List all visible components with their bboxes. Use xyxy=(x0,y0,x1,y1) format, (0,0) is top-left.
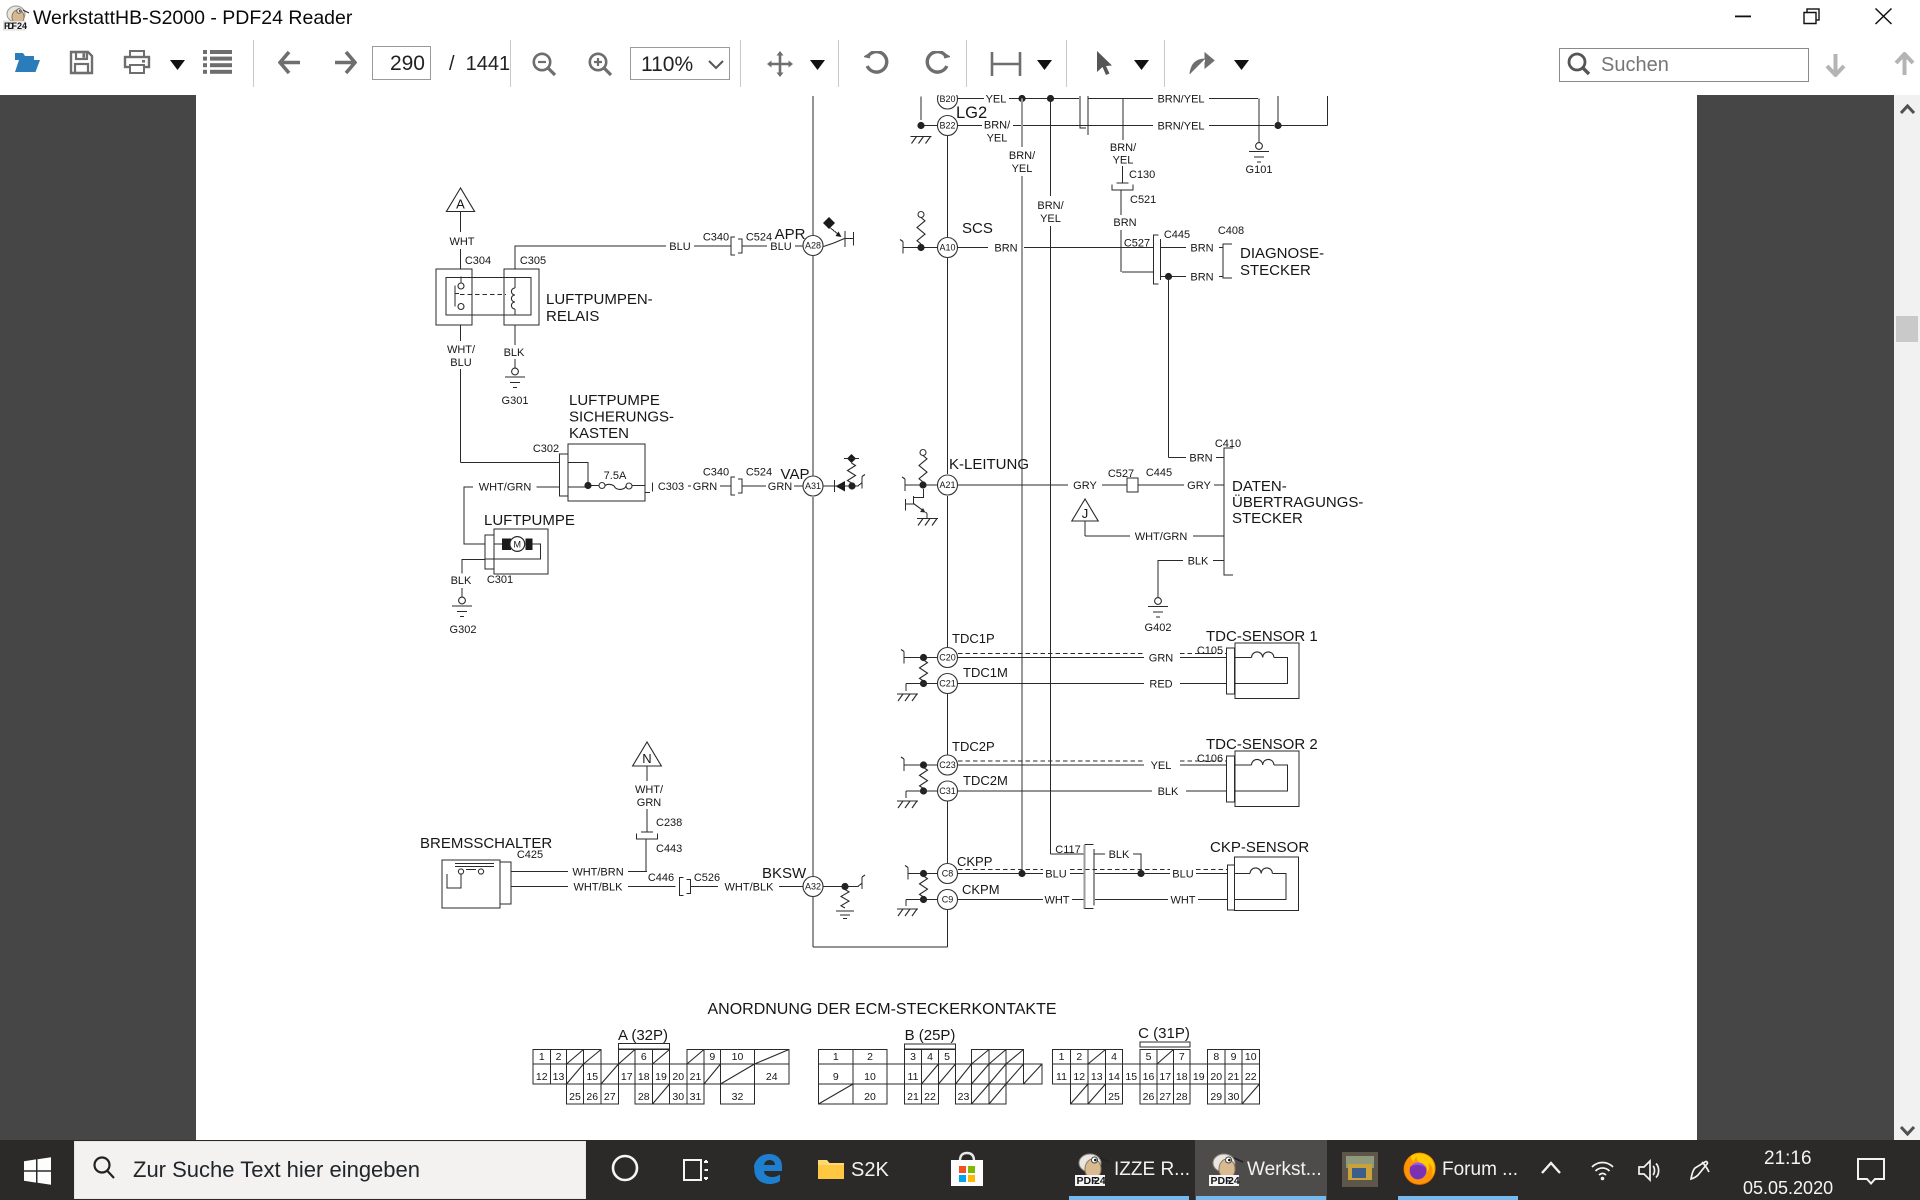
wire C524 to GRN2 vap xyxy=(743,485,767,487)
svg-text:2: 2 xyxy=(556,1051,562,1063)
wire C526 to WHT/BLK xyxy=(691,886,719,888)
svg-text:WHT/: WHT/ xyxy=(447,344,476,356)
svg-text:GRY: GRY xyxy=(1073,480,1097,492)
svg-text:BRN: BRN xyxy=(1190,243,1213,255)
svg-text:B20: B20 xyxy=(939,95,955,104)
wire BLK corner to BLU xyxy=(1133,854,1141,874)
svg-text:YEL: YEL xyxy=(1113,155,1134,167)
svg-text:BRN/YEL: BRN/YEL xyxy=(1157,95,1204,106)
cortana circle xyxy=(610,1153,640,1183)
wire WHT/BLU into C302 xyxy=(461,462,560,464)
wire BLU2 to A28 xyxy=(795,245,803,247)
taskbar search box xyxy=(74,1141,586,1199)
svg-text:23: 23 xyxy=(958,1091,970,1103)
wire BRN2 into C408 xyxy=(1219,276,1223,278)
wire BLU cont xyxy=(1141,873,1170,875)
svg-text:25: 25 xyxy=(569,1091,581,1103)
measure tool xyxy=(990,50,1022,78)
switch symbol A28 xyxy=(823,217,835,229)
wire from diagnose dot down xyxy=(1168,277,1170,458)
wire top stub above B22 junction xyxy=(920,97,922,121)
ECM line A31 to A32 xyxy=(812,497,814,876)
svg-text:29: 29 xyxy=(1210,1091,1222,1103)
svg-text:31: 31 xyxy=(690,1091,702,1103)
svg-text:BLU: BLU xyxy=(669,241,690,253)
svg-text:BLU: BLU xyxy=(1172,869,1193,881)
share arrow xyxy=(1188,51,1215,76)
wire A10 BRN right xyxy=(958,247,988,249)
node dot bus A to BLU xyxy=(1018,870,1025,877)
svg-text:G101: G101 xyxy=(1246,164,1273,176)
svg-text:BLU: BLU xyxy=(1045,869,1066,881)
svg-text:WHT/BRN: WHT/BRN xyxy=(572,867,623,879)
relay inner box xyxy=(446,278,531,316)
wire GRN solid xyxy=(958,657,1145,659)
photo icon xyxy=(1342,1152,1378,1187)
grid C row3 xyxy=(1071,1084,1089,1104)
node junction dot left of B22 xyxy=(917,122,924,129)
svg-text:BLK: BLK xyxy=(1109,849,1130,861)
ground hatch TDC2 xyxy=(898,801,917,808)
svg-text:C106: C106 xyxy=(1197,753,1223,765)
resistor pullup SCS xyxy=(918,212,924,218)
svg-text:C20: C20 xyxy=(939,653,956,663)
node dot bus A top xyxy=(1018,95,1025,102)
wire BLU into ckp bar xyxy=(1196,873,1228,875)
wire WHT after C117 xyxy=(1095,899,1168,901)
svg-text:C105: C105 xyxy=(1197,645,1223,657)
svg-text:20: 20 xyxy=(672,1071,684,1083)
svg-text:C23: C23 xyxy=(939,760,956,770)
wire C305 up corner BLU xyxy=(515,246,666,269)
wire C130 to C527 corner xyxy=(1120,190,1122,215)
svg-text:GRY: GRY xyxy=(1187,480,1211,492)
save floppy xyxy=(69,50,94,75)
wire corner up at right end xyxy=(1327,96,1329,126)
wire BLK from C305 xyxy=(514,325,516,345)
wire BLK to G302 xyxy=(461,588,463,597)
svg-text:2: 2 xyxy=(867,1051,873,1063)
diamond top A31 xyxy=(847,454,856,463)
ECM pin A28 xyxy=(803,236,823,256)
grid B row2 xyxy=(819,1064,854,1084)
wire BLU solid ckp xyxy=(958,873,1044,875)
svg-text:C340: C340 xyxy=(703,232,729,244)
ECM pin A32 xyxy=(803,877,823,897)
ECM line top to A28 xyxy=(812,96,814,235)
svg-text:4: 4 xyxy=(927,1051,933,1063)
wire bracket to C23 xyxy=(904,764,938,766)
svg-text:26: 26 xyxy=(586,1091,598,1103)
svg-text:17: 17 xyxy=(1159,1071,1171,1083)
svg-text:C117: C117 xyxy=(1055,844,1080,856)
connector bracket brake switch xyxy=(500,862,511,904)
wire junction to B22 xyxy=(924,125,937,127)
wire bracket to A21 xyxy=(905,484,937,486)
svg-text:12: 12 xyxy=(1073,1071,1085,1083)
wire corner into C527 left xyxy=(1122,271,1153,273)
connector C105 bar xyxy=(1227,648,1235,694)
svg-text:C301: C301 xyxy=(487,574,513,586)
grid A row1 xyxy=(533,1050,551,1065)
ECM line A10 to A21 xyxy=(947,258,949,474)
ground hatch TDC1 xyxy=(898,694,917,701)
svg-text:14: 14 xyxy=(1108,1071,1120,1083)
node dot A31 right xyxy=(848,482,855,489)
move tool xyxy=(766,50,794,78)
wire GRY to C527 box xyxy=(1102,484,1127,486)
wire YEL solid tdc2 xyxy=(958,764,1145,766)
svg-text:18: 18 xyxy=(638,1071,650,1083)
wire WHT/BRN to N-drop xyxy=(628,871,647,873)
connector C446/C526 xyxy=(680,878,691,896)
wire BRN to corner xyxy=(1120,230,1122,272)
wire TDC2M gnd drop xyxy=(905,791,907,798)
svg-text:G302: G302 xyxy=(450,624,477,636)
grid C key tab xyxy=(1140,1042,1190,1047)
ground A32 xyxy=(836,910,854,912)
zoom in xyxy=(588,52,614,77)
wire switch to WHT/BLK1 xyxy=(511,886,568,888)
wire GRN2 to A31 xyxy=(794,485,803,487)
connector DLC bar xyxy=(1224,448,1233,575)
node dot TDC1M xyxy=(920,680,927,687)
wire WHT/BLK1 to C446 xyxy=(628,886,676,888)
svg-text:WHT/BLK: WHT/BLK xyxy=(574,882,624,894)
svg-text:1: 1 xyxy=(539,1051,545,1063)
zoom dropdown xyxy=(630,47,730,80)
wire BLK dlc corner xyxy=(1158,561,1183,599)
box CKP sensor xyxy=(1235,857,1299,911)
wire A21 GRY right xyxy=(958,484,1068,486)
MS store xyxy=(948,1150,986,1188)
rotate right xyxy=(923,51,950,76)
svg-text:30: 30 xyxy=(1228,1091,1240,1103)
svg-text:C446: C446 xyxy=(648,872,674,884)
svg-text:22: 22 xyxy=(924,1091,936,1103)
ECM pin C8 xyxy=(938,864,958,884)
svg-text:LUFTPUMPEN-: LUFTPUMPEN- xyxy=(546,291,653,308)
svg-text:B (25P): B (25P) xyxy=(905,1027,956,1044)
svg-text:15: 15 xyxy=(1125,1071,1137,1083)
switch contacts brake xyxy=(455,863,494,865)
svg-text:G402: G402 xyxy=(1145,622,1172,634)
wire YEL row segment 2 xyxy=(1009,98,1079,100)
wire C445 to BRN label xyxy=(1161,247,1187,249)
connector C408 bracket xyxy=(1223,244,1232,278)
left arrow xyxy=(278,51,301,74)
svg-text:27: 27 xyxy=(604,1091,616,1103)
svg-text:KASTEN: KASTEN xyxy=(569,425,629,442)
svg-text:20: 20 xyxy=(864,1091,876,1103)
svg-text:GRN: GRN xyxy=(637,797,662,809)
svg-text:A21: A21 xyxy=(939,480,955,490)
transistor K-line driver xyxy=(906,489,928,518)
wifi xyxy=(1590,1158,1615,1183)
bus B vertical xyxy=(1050,99,1052,197)
connector C303 xyxy=(645,481,653,493)
triangle N xyxy=(633,742,662,766)
page number box xyxy=(372,46,431,80)
svg-text:18: 18 xyxy=(1176,1071,1188,1083)
svg-text:TDC1P: TDC1P xyxy=(952,631,995,646)
wire pump to motor xyxy=(485,544,541,559)
wire RED right xyxy=(1180,683,1227,685)
wire GRY2 to DLC xyxy=(1214,484,1224,486)
IZZE pdf24 sheep xyxy=(1073,1151,1111,1189)
ECM pin C21 xyxy=(938,674,958,694)
box brake switch xyxy=(442,860,500,908)
wire WHT/GRN into DLC xyxy=(1193,535,1224,537)
svg-text:BRN: BRN xyxy=(1190,272,1213,284)
svg-text:C305: C305 xyxy=(520,255,546,267)
ECM pin A21 xyxy=(938,475,958,495)
ECM pin B22 xyxy=(938,116,958,136)
svg-text:WHT: WHT xyxy=(1044,895,1069,907)
svg-text:24: 24 xyxy=(1228,1175,1240,1187)
connector C340/C524 vap xyxy=(731,477,742,495)
wire corner to C410 xyxy=(1169,457,1187,459)
wire BRN into C408 xyxy=(1219,247,1223,249)
svg-text:C31: C31 xyxy=(939,786,956,796)
svg-text:30: 30 xyxy=(672,1091,684,1103)
grid A row3 xyxy=(567,1084,584,1104)
box TDC sensor 2 xyxy=(1235,751,1299,807)
svg-text:21: 21 xyxy=(907,1091,919,1103)
svg-text:STECKER: STECKER xyxy=(1232,510,1303,527)
node dot bus B top xyxy=(1047,95,1054,102)
search box xyxy=(1559,48,1809,82)
ECM pin C23 xyxy=(938,755,958,775)
connector C117 right bar xyxy=(1093,849,1095,906)
zoom out xyxy=(532,52,558,77)
action center xyxy=(1856,1157,1886,1186)
svg-text:YEL: YEL xyxy=(987,133,1008,145)
grid A row2 xyxy=(533,1064,551,1084)
svg-text:DIAGNOSE-: DIAGNOSE- xyxy=(1240,245,1324,262)
ground hatch under B22 junction xyxy=(912,137,931,144)
svg-text:5: 5 xyxy=(944,1051,950,1063)
shield dashed CKP xyxy=(958,869,1228,871)
box TDC sensor 1 xyxy=(1235,643,1299,699)
svg-text:WHT: WHT xyxy=(449,236,474,248)
wire bracket to A10 xyxy=(903,247,937,249)
active app werkst xyxy=(1195,1140,1327,1200)
svg-text:LG2: LG2 xyxy=(956,104,987,122)
svg-text:WHT/GRN: WHT/GRN xyxy=(1135,531,1188,543)
wire row2 segment 4 xyxy=(1278,125,1328,127)
svg-text:2: 2 xyxy=(1076,1051,1082,1063)
wire drop to C130 xyxy=(1122,166,1124,183)
tray chevron xyxy=(1540,1160,1562,1177)
node dot row2 right xyxy=(1274,122,1281,129)
svg-text:K-LEITUNG: K-LEITUNG xyxy=(949,456,1029,473)
svg-text:BLK: BLK xyxy=(451,575,472,587)
resistor TDC1 bias xyxy=(920,660,928,681)
svg-text:5: 5 xyxy=(1146,1051,1152,1063)
svg-text:9: 9 xyxy=(709,1051,715,1063)
svg-text:C (31P): C (31P) xyxy=(1138,1025,1190,1042)
wire C238 to BKSW row xyxy=(645,839,647,872)
svg-text:BRN/: BRN/ xyxy=(984,120,1011,132)
wire TDC2M left xyxy=(906,790,938,792)
svg-text:C304: C304 xyxy=(465,255,491,267)
svg-text:TDC1M: TDC1M xyxy=(963,665,1008,680)
svg-text:24: 24 xyxy=(17,21,27,31)
window controls xyxy=(1730,0,1920,35)
svg-text:BRN/: BRN/ xyxy=(1110,142,1137,154)
svg-text:C21: C21 xyxy=(939,679,956,689)
svg-text:C8: C8 xyxy=(942,869,954,879)
bus A vertical gray xyxy=(1021,99,1023,148)
node dot BLK shield join xyxy=(1137,870,1144,877)
svg-text:24: 24 xyxy=(1094,1175,1106,1187)
svg-text:RELAIS: RELAIS xyxy=(546,308,599,325)
triangle J xyxy=(1072,499,1098,521)
svg-text:GRN: GRN xyxy=(1149,653,1174,665)
wire YEL right tdc2 xyxy=(1180,764,1227,766)
wire TDC1M left xyxy=(906,683,938,685)
list icon xyxy=(203,50,232,74)
connector C117 left bar xyxy=(1084,845,1086,909)
svg-text:C303: C303 xyxy=(658,481,684,493)
printer xyxy=(123,50,151,75)
svg-text:STECKER: STECKER xyxy=(1240,262,1311,279)
connector top row pair xyxy=(1080,96,1088,135)
svg-text:25: 25 xyxy=(1108,1091,1120,1103)
wire WHT to C117 xyxy=(1072,899,1085,901)
resistor pullup K-LEITUNG xyxy=(920,450,926,456)
svg-text:TDC-SENSOR 1: TDC-SENSOR 1 xyxy=(1206,628,1318,645)
node dot TDC1P xyxy=(920,654,927,661)
svg-text:ÜBERTRAGUNGS-: ÜBERTRAGUNGS- xyxy=(1232,493,1363,511)
relay outer right xyxy=(504,269,539,325)
grid C row2 xyxy=(1053,1064,1071,1084)
wire YEL row segment 4 xyxy=(1209,98,1258,100)
svg-text:M: M xyxy=(514,540,522,550)
connector C106 bar xyxy=(1227,756,1235,802)
pen xyxy=(1688,1159,1712,1182)
wire TDC1M gnd drop xyxy=(905,684,907,692)
wire C303 GRN xyxy=(688,485,691,487)
svg-text:BLK: BLK xyxy=(1158,786,1179,798)
svg-text:C527: C527 xyxy=(1124,238,1150,250)
svg-text:BRN/: BRN/ xyxy=(1037,200,1064,212)
shield dashed TDC2 xyxy=(958,760,1227,762)
svg-text:BRN: BRN xyxy=(1113,217,1136,229)
wire box to GRY2 xyxy=(1138,484,1184,486)
connector ckp bar xyxy=(1228,865,1235,910)
wire J to WHT/GRN xyxy=(1085,535,1130,537)
svg-text:N: N xyxy=(642,751,651,766)
svg-text:C443: C443 xyxy=(656,843,682,855)
coil TDC sensor 1 xyxy=(1235,658,1288,684)
svg-text:26: 26 xyxy=(1143,1091,1155,1103)
bracket A31 right xyxy=(861,477,863,489)
wire A32 to dot xyxy=(824,886,859,888)
svg-text:BLK: BLK xyxy=(504,347,525,359)
svg-text:BRN/: BRN/ xyxy=(1009,150,1036,162)
svg-text:LUFTPUMPE: LUFTPUMPE xyxy=(569,392,660,409)
svg-text:11: 11 xyxy=(908,1071,919,1083)
svg-text:16: 16 xyxy=(1143,1071,1155,1083)
svg-text:21: 21 xyxy=(690,1071,702,1083)
wire row2 segment 2 xyxy=(1013,125,1153,127)
grid C row1 xyxy=(1053,1050,1071,1065)
wire pump BLK down xyxy=(462,560,485,574)
svg-text:7: 7 xyxy=(1179,1051,1185,1063)
svg-text:WHT: WHT xyxy=(1170,895,1195,907)
bracket CKPP left xyxy=(907,868,909,880)
svg-text:C130: C130 xyxy=(1129,169,1155,181)
svg-text:32: 32 xyxy=(732,1091,744,1103)
svg-text:BRN/YEL: BRN/YEL xyxy=(1157,121,1204,133)
svg-text:11: 11 xyxy=(1056,1071,1067,1083)
svg-text:YEL: YEL xyxy=(1012,163,1033,175)
wire YEL row from B20 xyxy=(958,98,984,100)
wire row2 segment 3 xyxy=(1209,125,1274,127)
coil CKP sensor xyxy=(1234,874,1286,900)
box pump xyxy=(494,529,548,574)
node dot TDC2P xyxy=(920,761,927,768)
svg-text:CKPP: CKPP xyxy=(957,854,992,869)
firefox xyxy=(1401,1150,1438,1187)
ECM line A28 to A31 xyxy=(812,256,814,476)
wire WHT/GRN elbow down xyxy=(464,487,485,544)
wire N down 2 xyxy=(646,809,648,832)
svg-text:TDC2P: TDC2P xyxy=(952,739,995,754)
svg-text:DATEN-: DATEN- xyxy=(1232,478,1287,495)
connector C527/C445 diagnose xyxy=(1154,235,1161,284)
relay coil xyxy=(514,278,516,316)
svg-text:20: 20 xyxy=(1210,1071,1222,1083)
svg-text:21: 21 xyxy=(1228,1071,1240,1083)
wire inside fusebox xyxy=(568,463,588,488)
svg-text:YEL: YEL xyxy=(1040,213,1061,225)
wire bracket to C20 xyxy=(904,657,938,659)
wire CKPM left xyxy=(906,899,938,901)
ground G301 xyxy=(505,368,525,387)
relay dashed link xyxy=(460,294,506,296)
bracket left of K-LEITUNG resistor xyxy=(904,479,906,491)
ECM pin B20 xyxy=(938,89,958,109)
svg-text:A32: A32 xyxy=(805,882,821,892)
svg-text:TDC2M: TDC2M xyxy=(963,773,1008,788)
svg-text:10: 10 xyxy=(1245,1051,1257,1063)
svg-text:A31: A31 xyxy=(805,481,821,491)
wire lower diagnose from C527 xyxy=(1161,276,1187,278)
svg-text:BRN: BRN xyxy=(1189,453,1212,465)
wire WHT solid ckp xyxy=(958,899,1044,901)
svg-text:1: 1 xyxy=(833,1051,839,1063)
ECM line A32 to bottom xyxy=(812,897,814,947)
svg-text:9: 9 xyxy=(833,1071,839,1083)
wire up from row2 dot xyxy=(1277,96,1279,126)
svg-text:17: 17 xyxy=(621,1071,633,1083)
wire WHT to C304 xyxy=(460,249,462,269)
ECM pin C20 xyxy=(938,648,958,668)
svg-text:8: 8 xyxy=(1213,1051,1219,1063)
svg-text:PDF: PDF xyxy=(4,21,18,31)
ECM line C9 to bottom xyxy=(947,910,949,947)
wire WHT/BLK to A32 xyxy=(779,886,803,888)
wire BLU after C117 xyxy=(1095,873,1138,875)
wire WHT/BLU down xyxy=(460,369,462,463)
wire A down xyxy=(460,212,462,233)
wire down to G101 xyxy=(1258,99,1260,143)
svg-text:C445: C445 xyxy=(1164,229,1190,241)
resistor A31 pullup xyxy=(848,463,856,483)
